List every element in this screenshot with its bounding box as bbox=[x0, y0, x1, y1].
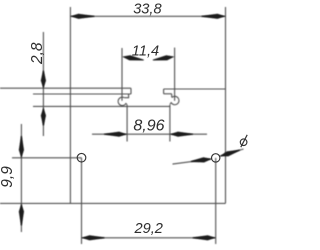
left hole centerline bbox=[12, 157, 82, 159]
arrow 8,96 left (tip right) bbox=[104, 132, 127, 137]
diameter symbol slash bbox=[241, 135, 247, 147]
11,4 left extension bbox=[121, 48, 123, 101]
leader line right segment bbox=[220, 149, 244, 156]
left hook hanger / 8,96 left extension bbox=[126, 105, 128, 142]
arrow 2,8 lower (pointing up) bbox=[41, 108, 46, 126]
dim line 8,96 bbox=[92, 133, 207, 135]
leader line left segment bbox=[173, 159, 212, 164]
dim line 29,2 bbox=[82, 237, 216, 239]
arrow 29,2 left bbox=[82, 235, 105, 240]
right hole bbox=[212, 154, 220, 162]
top wall outer edge left segment bbox=[0, 87, 131, 89]
left hole extension down bbox=[81, 158, 83, 244]
left hook C ring bbox=[118, 97, 127, 105]
leader arrow upper-right bbox=[220, 150, 240, 157]
right hook C ring bbox=[170, 96, 179, 104]
arrow 9,9 lower (pointing up) bbox=[19, 204, 24, 226]
top wall right segment bbox=[164, 88, 226, 90]
left hook step bbox=[124, 94, 128, 98]
left hole bbox=[77, 153, 86, 162]
svg-text:33,8: 33,8 bbox=[133, 2, 162, 18]
svg-text:9,9: 9,9 bbox=[0, 166, 16, 188]
svg-text:29,2: 29,2 bbox=[134, 221, 163, 237]
arrow 33,8 left bbox=[70, 14, 94, 19]
2,8 dimension line bbox=[42, 32, 44, 136]
leader arrow lower-left bbox=[191, 157, 212, 162]
arrow 11,4 left (tilted) bbox=[122, 55, 144, 60]
arrow 9,9 upper (pointing down) bbox=[19, 136, 24, 158]
9,9 dimension line bbox=[20, 124, 22, 232]
arrow 2,8 upper (pointing down) bbox=[41, 71, 46, 89]
bottom edge bbox=[0, 202, 226, 204]
right hook step down 2 bbox=[171, 94, 173, 98]
svg-text:2,8: 2,8 bbox=[29, 42, 46, 65]
arrow 11,4 right (tilted) bbox=[153, 55, 175, 60]
svg-text:8,96: 8,96 bbox=[133, 117, 164, 134]
inner shelf line bbox=[33, 105, 170, 107]
strip end cap bbox=[130, 88, 132, 94]
left wall / 33,8 left extension bbox=[69, 7, 71, 203]
dim line 33,8 bbox=[70, 15, 225, 17]
arrow 8,96 right (tip left) bbox=[170, 132, 193, 137]
right hook step horizontal bbox=[164, 93, 172, 95]
right hook hanger / 8,96 right extension bbox=[169, 105, 171, 142]
right wall / 33,8 right extension bbox=[225, 7, 227, 203]
right hole extension down bbox=[215, 158, 217, 244]
diameter symbol circle bbox=[240, 139, 247, 146]
arrow 33,8 right bbox=[202, 14, 226, 19]
top wall inner edge left bbox=[33, 93, 131, 95]
arrow 29,2 right bbox=[193, 235, 216, 240]
right hook step down bbox=[163, 89, 165, 94]
11,4 right extension bbox=[174, 48, 176, 101]
svg-text:11,4: 11,4 bbox=[132, 43, 159, 59]
